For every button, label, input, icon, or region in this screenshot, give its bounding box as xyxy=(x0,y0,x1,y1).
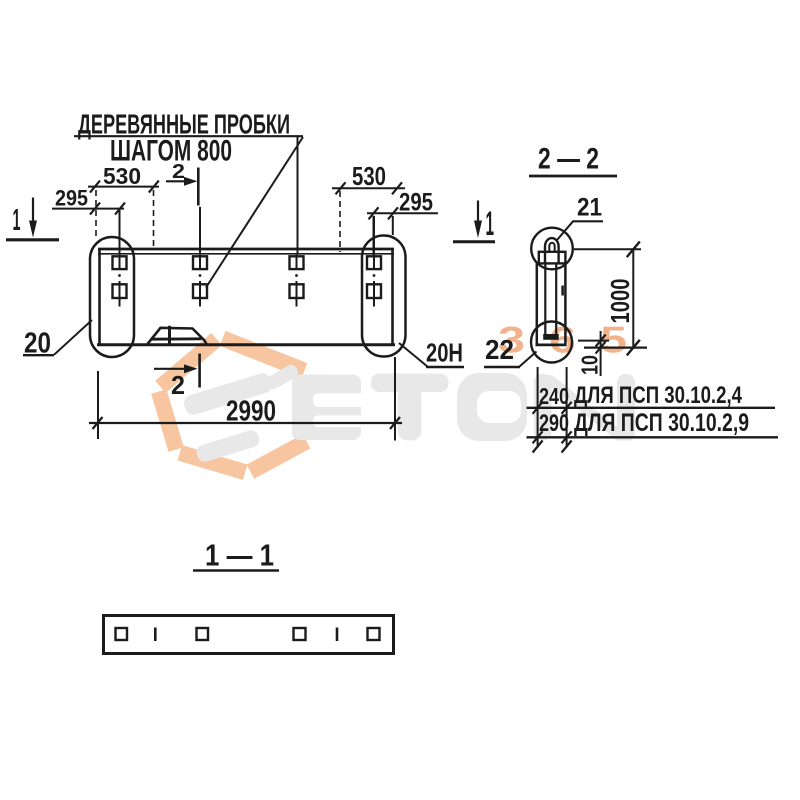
svg-text:2: 2 xyxy=(172,161,185,183)
svg-text:21: 21 xyxy=(577,194,602,222)
svg-text:10: 10 xyxy=(577,355,603,375)
svg-text:295: 295 xyxy=(55,186,88,211)
svg-text:530: 530 xyxy=(352,161,386,191)
svg-text:530: 530 xyxy=(103,163,141,189)
svg-text:2 — 2: 2 — 2 xyxy=(538,143,599,176)
svg-text:1 — 1: 1 — 1 xyxy=(205,538,274,573)
svg-text:20Н: 20Н xyxy=(426,338,463,368)
svg-text:ДЛЯ ПСП 30.10.2,9: ДЛЯ ПСП 30.10.2,9 xyxy=(574,409,749,437)
svg-text:ДЛЯ ПСП 30.10.2,4: ДЛЯ ПСП 30.10.2,4 xyxy=(574,382,743,409)
svg-text:1000: 1000 xyxy=(605,279,635,324)
svg-text:2: 2 xyxy=(171,370,185,400)
svg-text:1: 1 xyxy=(13,202,21,237)
svg-text:22: 22 xyxy=(485,334,514,365)
svg-text:1: 1 xyxy=(486,205,495,243)
svg-text:290: 290 xyxy=(539,410,569,437)
svg-text:240: 240 xyxy=(539,383,569,409)
svg-text:2990: 2990 xyxy=(226,396,276,428)
svg-text:20: 20 xyxy=(24,328,51,360)
svg-text:295: 295 xyxy=(399,189,433,217)
